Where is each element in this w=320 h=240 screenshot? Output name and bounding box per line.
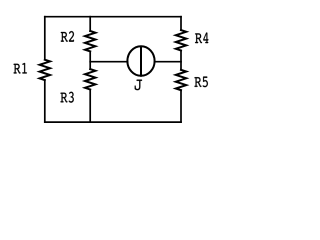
current source J bar: [140, 47, 142, 76]
wire right-top lead: [180, 17, 182, 30]
wire left-bottom lead: [44, 80, 46, 122]
wire right-middle lead: [180, 51, 182, 70]
wire middle left (node to source): [90, 61, 127, 63]
resistor R3: [85, 69, 95, 89]
wire bottom: [45, 121, 181, 123]
resistor R5: [176, 70, 186, 90]
wire branch2 top lead: [89, 17, 91, 31]
label R1: [14, 63, 27, 74]
label R2: [61, 31, 74, 42]
resistor R2: [85, 31, 95, 51]
wire middle right (source to node): [155, 61, 181, 63]
label R3: [61, 92, 74, 103]
label R5: [195, 77, 208, 88]
wire branch2 bottom lead: [89, 90, 91, 123]
label J: [135, 80, 142, 91]
current source J circle: [127, 46, 154, 76]
resistor R1: [40, 60, 50, 80]
wire branch2 middle lead: [89, 51, 91, 69]
label R4: [195, 33, 208, 44]
wire left-top lead: [44, 17, 46, 60]
wire top: [45, 16, 181, 18]
wire right-bottom lead: [180, 90, 182, 122]
resistor R4: [176, 30, 186, 50]
